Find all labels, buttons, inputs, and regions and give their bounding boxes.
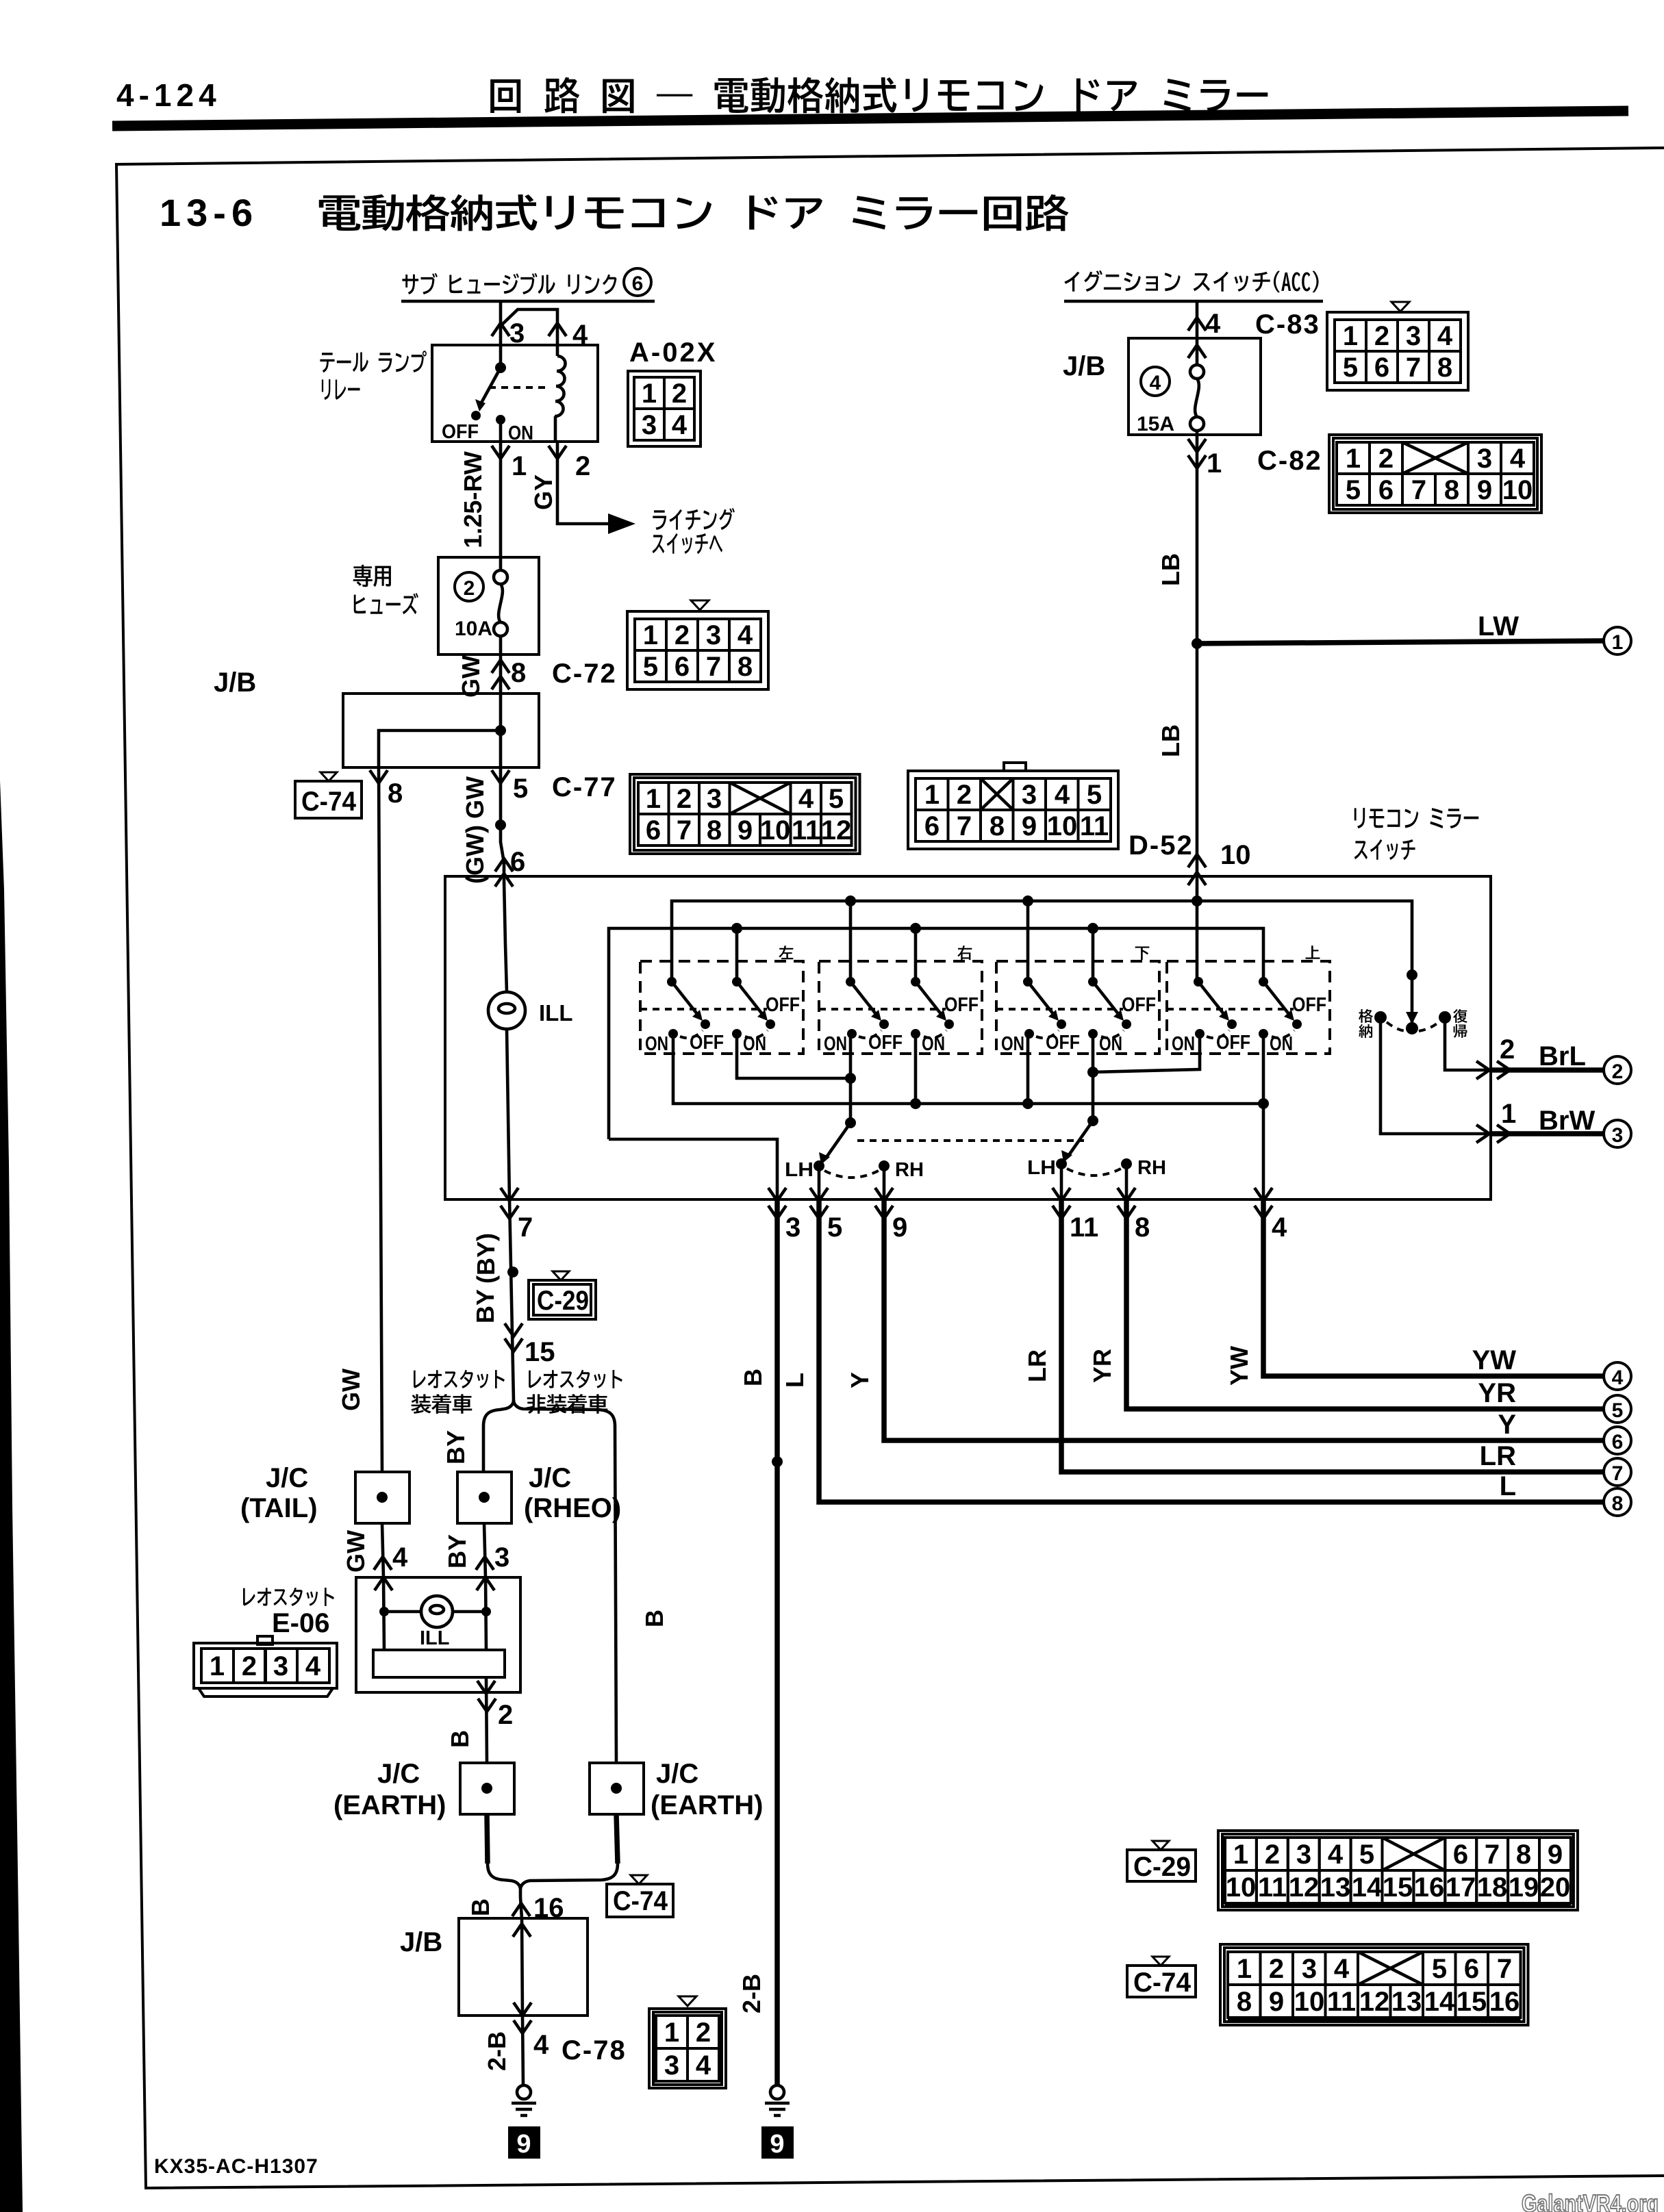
svg-text:4: 4 <box>1055 780 1070 810</box>
svg-text:5: 5 <box>643 652 658 682</box>
svg-text:5: 5 <box>827 1212 842 1243</box>
rheostat resistor element <box>373 1650 505 1677</box>
svg-text:YR: YR <box>1478 1378 1516 1408</box>
svg-text:ON: ON <box>824 1033 847 1055</box>
ground ref 9 (left) <box>508 2126 540 2159</box>
page header title <box>490 77 1268 114</box>
svg-text:4: 4 <box>696 2050 711 2081</box>
svg-text:4: 4 <box>1510 444 1526 474</box>
svg-text:19: 19 <box>1509 1872 1539 1903</box>
svg-text:2-B: 2-B <box>738 1974 766 2013</box>
connector C-29 (20 pin) <box>1218 1831 1578 1910</box>
svg-text:11: 11 <box>1258 1872 1287 1903</box>
label: remote mirror switch <box>1354 808 1478 828</box>
wire BY to rheostat pin 3 <box>484 1523 486 1577</box>
selector LH/RH no.1 <box>845 1117 856 1128</box>
svg-text:7: 7 <box>677 815 692 846</box>
wire group up-B lower to pin 4 <box>1262 1034 1265 1199</box>
svg-text:OFF: OFF <box>766 994 800 1016</box>
wire BrL from selector to terminal 2 <box>1445 1017 1491 1070</box>
svg-text:14: 14 <box>1352 1872 1383 1903</box>
svg-text:OFF: OFF <box>1292 994 1326 1016</box>
wire branch to relay pin 4 <box>501 309 557 345</box>
rail: left-B / right-A common to selector 1 <box>737 1034 850 1078</box>
wire GW fuse to J/B <box>499 654 503 694</box>
connector C-29 symbol <box>553 1271 569 1280</box>
svg-text:RH: RH <box>895 1159 924 1181</box>
svg-text:6: 6 <box>1464 1954 1479 1984</box>
selector fold/return (kakunou/fukki) <box>1374 1011 1387 1024</box>
svg-text:1: 1 <box>664 2018 679 2048</box>
rail A drop to group contacts <box>850 880 1197 982</box>
svg-text:9: 9 <box>892 1212 907 1243</box>
svg-text:6: 6 <box>924 811 940 841</box>
svg-text:3: 3 <box>1296 1840 1311 1870</box>
svg-text:LR: LR <box>1480 1441 1516 1471</box>
selector LH/RH no.2 <box>1087 1115 1098 1126</box>
svg-text:10: 10 <box>1502 475 1533 505</box>
J/B pin 8 exit <box>379 767 382 1472</box>
svg-text:4-124: 4-124 <box>116 77 221 113</box>
svg-text:15: 15 <box>1383 1872 1413 1903</box>
svg-text:3: 3 <box>494 1542 509 1573</box>
brace split <box>483 1400 615 1426</box>
wire LW to terminal 1 <box>1197 641 1603 644</box>
svg-text:9: 9 <box>1548 1840 1563 1870</box>
rheostat pin 2 exit wire B <box>486 1677 487 1763</box>
connector D-52 <box>1004 763 1026 771</box>
svg-text:3: 3 <box>1406 321 1421 351</box>
svg-text:13-6: 13-6 <box>160 191 258 234</box>
svg-text:4: 4 <box>392 1542 408 1573</box>
svg-text:ON: ON <box>1001 1033 1024 1055</box>
svg-text:OFF: OFF <box>442 421 479 443</box>
wire BY from switch pin 7 <box>509 1199 514 1401</box>
node: ignition switch (ACC) label <box>1064 270 1318 292</box>
wire B to J/B pin 16 <box>520 1898 522 1918</box>
svg-text:8: 8 <box>388 778 403 809</box>
svg-text:1.25-RW: 1.25-RW <box>459 451 487 548</box>
svg-text:LH: LH <box>1027 1157 1056 1179</box>
relay internal dashed link <box>489 386 548 389</box>
svg-text:ON: ON <box>1270 1033 1293 1055</box>
svg-text:J/B: J/B <box>1063 351 1105 381</box>
svg-text:8: 8 <box>1612 1492 1624 1515</box>
svg-text:B: B <box>739 1369 767 1386</box>
svg-text:1: 1 <box>1233 1840 1248 1870</box>
brace merge <box>488 1864 618 1898</box>
J/B pin 5 exit wire GW <box>501 767 504 880</box>
svg-text:4: 4 <box>738 620 753 650</box>
svg-text:1: 1 <box>1207 448 1222 479</box>
connector C-74 symbol <box>320 772 337 781</box>
svg-text:C-78: C-78 <box>562 2035 627 2065</box>
svg-text:10: 10 <box>1220 840 1251 870</box>
svg-text:12: 12 <box>1359 1987 1390 2017</box>
svg-text:6: 6 <box>1612 1431 1624 1453</box>
svg-text:2: 2 <box>675 620 690 650</box>
svg-text:C-29: C-29 <box>1133 1852 1191 1882</box>
svg-text:2: 2 <box>1378 444 1394 474</box>
scan artifact left edge <box>0 780 23 2212</box>
svg-text:12: 12 <box>821 815 852 846</box>
wire B pin3 down to ground <box>774 1199 780 2085</box>
svg-text:2: 2 <box>464 577 475 600</box>
svg-text:7: 7 <box>957 811 972 841</box>
svg-text:Y: Y <box>1498 1410 1516 1440</box>
svg-text:GW: GW <box>461 776 489 819</box>
rail: down-B / up-A common to selector 2 <box>1092 1034 1095 1121</box>
svg-text:2: 2 <box>1500 1034 1515 1065</box>
svg-text:J/C: J/C <box>377 1759 420 1789</box>
svg-text:6: 6 <box>1374 353 1389 383</box>
svg-text:2: 2 <box>677 784 692 814</box>
node junction to LW <box>1192 638 1202 649</box>
svg-text:C-74: C-74 <box>301 787 357 817</box>
svg-text:16: 16 <box>1489 1987 1520 2017</box>
relay coil <box>556 345 559 356</box>
svg-text:RH: RH <box>1137 1157 1166 1179</box>
wire GW to rheostat pin 4 <box>382 1523 383 1577</box>
wire B right branch (no rheostat) <box>615 1426 616 1763</box>
pin 4 <box>549 323 566 336</box>
svg-text:3: 3 <box>664 2050 679 2081</box>
svg-text:8: 8 <box>1437 353 1452 383</box>
relay switch contact <box>499 345 503 368</box>
svg-text:D-52: D-52 <box>1129 830 1194 861</box>
rail B (common inside switch) <box>609 928 1263 1139</box>
rail: ON-common to pin 4 <box>673 1034 1263 1104</box>
svg-text:E-06: E-06 <box>272 1608 330 1638</box>
svg-text:8: 8 <box>738 652 753 682</box>
svg-text:ON: ON <box>508 422 533 444</box>
svg-text:C-83: C-83 <box>1255 309 1320 340</box>
switch group 上 <box>1167 961 1330 1054</box>
svg-text:7: 7 <box>706 652 721 682</box>
svg-text:3: 3 <box>642 410 657 440</box>
svg-text:7: 7 <box>518 1212 533 1243</box>
svg-text:2: 2 <box>1612 1060 1624 1083</box>
svg-text:1: 1 <box>1501 1099 1516 1129</box>
svg-text:L: L <box>781 1373 809 1388</box>
svg-text:1: 1 <box>643 620 658 650</box>
svg-text:(EARTH): (EARTH) <box>333 1790 446 1820</box>
svg-text:1: 1 <box>210 1651 225 1681</box>
wires down to merge brace <box>487 1814 618 1864</box>
svg-text:3: 3 <box>1477 444 1492 474</box>
svg-text:OFF: OFF <box>868 1032 903 1054</box>
svg-text:4: 4 <box>305 1651 321 1681</box>
svg-text:3: 3 <box>1612 1124 1624 1147</box>
svg-text:1: 1 <box>924 780 940 810</box>
svg-text:10A: 10A <box>455 618 492 640</box>
svg-text:2: 2 <box>1374 321 1389 351</box>
svg-text:4: 4 <box>1437 321 1453 351</box>
fuse: dedicated fuse 10A (2) <box>353 565 391 587</box>
svg-text:ILL: ILL <box>539 1000 572 1026</box>
svg-text:OFF: OFF <box>690 1032 724 1054</box>
svg-text:3: 3 <box>707 784 722 814</box>
svg-text:6: 6 <box>675 652 690 682</box>
svg-text:6: 6 <box>632 272 644 295</box>
svg-text:BrL: BrL <box>1539 1041 1586 1071</box>
svg-text:7: 7 <box>1411 475 1426 505</box>
svg-text:5: 5 <box>1087 780 1102 810</box>
svg-text:8: 8 <box>1444 475 1459 505</box>
svg-text:8: 8 <box>707 815 722 846</box>
connector C-72 <box>691 600 709 610</box>
svg-text:8: 8 <box>1135 1212 1150 1243</box>
svg-text:YW: YW <box>1472 1345 1517 1375</box>
svg-text:J/C: J/C <box>656 1759 698 1789</box>
connector C-29 label (bottom) <box>1152 1841 1169 1850</box>
svg-text:15: 15 <box>525 1337 555 1367</box>
svg-text:OFF: OFF <box>944 994 979 1016</box>
svg-text:2-B: 2-B <box>483 2031 511 2071</box>
svg-text:1: 1 <box>1237 1954 1252 1984</box>
node: sub fusible link (6) label <box>402 273 616 294</box>
junction connector J/C (EARTH) right <box>590 1763 644 1814</box>
svg-text:5: 5 <box>829 784 844 814</box>
svg-text:C-82: C-82 <box>1257 446 1322 476</box>
svg-text:C-72: C-72 <box>552 659 617 689</box>
svg-text:(EARTH): (EARTH) <box>651 1790 763 1820</box>
label rheostat not equipped <box>529 1370 622 1388</box>
svg-text:5: 5 <box>1343 353 1358 383</box>
svg-text:GW: GW <box>457 655 485 698</box>
connector C-78 <box>679 1996 696 2006</box>
wire from fusible link down to relay pin 3 <box>499 301 503 345</box>
svg-text:4: 4 <box>672 410 688 440</box>
svg-text:J/C: J/C <box>529 1463 571 1493</box>
svg-text:9: 9 <box>738 815 753 846</box>
svg-text:3: 3 <box>273 1651 288 1681</box>
svg-text:5: 5 <box>1612 1399 1624 1422</box>
svg-text:9: 9 <box>1269 1987 1284 2017</box>
wire Y pin9 to terminal 6 <box>884 1199 1603 1440</box>
connector C-82 <box>1329 435 1541 513</box>
svg-text:15A: 15A <box>1137 413 1174 435</box>
ground ref 9 (right) <box>761 2126 794 2159</box>
J/B pin 1 exit wire LB <box>1196 435 1199 880</box>
svg-text:KX35-AC-H1307: KX35-AC-H1307 <box>154 2155 318 2178</box>
svg-text:6: 6 <box>510 847 525 877</box>
relay: tail lamp relay box <box>320 351 427 372</box>
svg-text:GY: GY <box>529 474 557 510</box>
svg-text:(BY): (BY) <box>472 1233 500 1284</box>
svg-text:7: 7 <box>1485 1840 1500 1870</box>
pin 3 <box>492 323 509 336</box>
svg-text:B: B <box>466 1898 494 1916</box>
svg-text:11: 11 <box>1327 1987 1356 2017</box>
svg-text:11: 11 <box>1070 1212 1098 1243</box>
svg-text:(RHEO): (RHEO) <box>524 1493 621 1523</box>
switch group 下 <box>996 961 1159 1054</box>
svg-text:11: 11 <box>1080 811 1109 841</box>
svg-text:3: 3 <box>1022 780 1037 810</box>
svg-text:2: 2 <box>672 379 687 409</box>
svg-text:LR: LR <box>1023 1349 1051 1382</box>
svg-text:LB: LB <box>1157 553 1185 586</box>
svg-text:9: 9 <box>770 2130 784 2159</box>
svg-text:1: 1 <box>642 379 657 409</box>
svg-text:BrW: BrW <box>1539 1106 1595 1136</box>
svg-text:LB: LB <box>1157 724 1185 757</box>
pin 2 wire GY to lighting switch <box>557 442 609 524</box>
svg-text:7: 7 <box>1612 1462 1624 1485</box>
svg-text:4: 4 <box>1334 1954 1350 1984</box>
svg-text:9: 9 <box>1022 811 1037 841</box>
svg-text:11: 11 <box>792 815 820 846</box>
svg-text:4: 4 <box>1205 309 1221 339</box>
svg-text:YW: YW <box>1225 1346 1253 1386</box>
svg-text:7: 7 <box>1406 353 1421 383</box>
svg-text:J/C: J/C <box>266 1463 308 1493</box>
svg-text:B: B <box>640 1610 668 1627</box>
svg-text:16: 16 <box>1414 1872 1445 1903</box>
wire LB ignition to J/B fuse 4 <box>1196 301 1199 338</box>
pin 1 wire 1.25-RW <box>499 442 503 557</box>
svg-text:15: 15 <box>1457 1987 1487 2017</box>
svg-text:3: 3 <box>785 1212 801 1243</box>
svg-text:4: 4 <box>798 784 814 814</box>
switch box pin exits <box>501 1188 518 1201</box>
svg-text:3: 3 <box>706 620 721 650</box>
svg-text:14: 14 <box>1424 1987 1455 2017</box>
svg-text:4: 4 <box>1150 372 1161 394</box>
svg-text:C-74: C-74 <box>1133 1968 1192 1998</box>
svg-text:8: 8 <box>1237 1987 1252 2017</box>
svg-text:2: 2 <box>575 451 590 481</box>
svg-text:12: 12 <box>1289 1872 1320 1903</box>
header rule <box>112 111 1628 126</box>
svg-text:5: 5 <box>513 774 528 804</box>
svg-text:LH: LH <box>785 1159 814 1181</box>
svg-text:6: 6 <box>1453 1840 1468 1870</box>
svg-text:1: 1 <box>512 451 527 481</box>
wire BY left branch to J/C RHEO <box>482 1426 486 1472</box>
rheostat unit box <box>356 1577 520 1692</box>
svg-text:9: 9 <box>1477 475 1492 505</box>
svg-text:L: L <box>1500 1471 1516 1501</box>
svg-text:7: 7 <box>1497 1954 1512 1984</box>
svg-text:LW: LW <box>1478 611 1519 641</box>
svg-text:4: 4 <box>1272 1212 1287 1243</box>
svg-text:YR: YR <box>1088 1349 1116 1383</box>
svg-text:GalantVR4.org: GalantVR4.org <box>1522 2189 1659 2212</box>
svg-text:C-29: C-29 <box>537 1286 589 1316</box>
svg-text:ILL: ILL <box>420 1627 450 1649</box>
svg-text:OFF: OFF <box>1122 994 1156 1016</box>
J/B pin 4 exit wire 2-B <box>522 2016 523 2085</box>
svg-text:2: 2 <box>242 1651 257 1681</box>
svg-text:2: 2 <box>498 1700 513 1730</box>
terminal circle 1 <box>1604 627 1631 654</box>
svg-text:2: 2 <box>1269 1954 1284 1984</box>
svg-text:BY: BY <box>443 1534 471 1568</box>
lamp ILL (rheostat) <box>383 1577 384 1650</box>
svg-text:2: 2 <box>696 2018 711 2048</box>
svg-text:13: 13 <box>1391 1987 1422 2017</box>
connector C-74 (16 pin) <box>1220 1944 1528 2025</box>
connector C-77 <box>630 774 860 854</box>
svg-text:BY: BY <box>471 1289 499 1323</box>
wire BrW from selector to terminal 3 <box>1381 1017 1491 1134</box>
svg-text:17: 17 <box>1446 1872 1476 1903</box>
svg-text:4: 4 <box>533 2030 549 2060</box>
svg-text:C-74: C-74 <box>613 1886 668 1916</box>
connector E-06 <box>257 1636 273 1644</box>
svg-text:6: 6 <box>646 815 661 846</box>
svg-text:5: 5 <box>1432 1954 1447 1984</box>
svg-text:6: 6 <box>1378 475 1394 505</box>
svg-text:20: 20 <box>1540 1872 1571 1903</box>
svg-text:18: 18 <box>1477 1872 1508 1903</box>
svg-text:J/B: J/B <box>214 668 256 698</box>
ground symbol right <box>770 2085 784 2099</box>
svg-text:8: 8 <box>989 811 1005 841</box>
wire LR pin11 to terminal 7 <box>1061 1199 1603 1472</box>
svg-text:ON: ON <box>743 1033 766 1055</box>
svg-text:1: 1 <box>1612 631 1624 654</box>
remote mirror switch box <box>445 876 1491 1199</box>
svg-text:OFF: OFF <box>1216 1032 1250 1054</box>
svg-text:GW: GW <box>342 1530 370 1573</box>
svg-text:4: 4 <box>1612 1366 1624 1389</box>
svg-text:2: 2 <box>1265 1840 1280 1870</box>
svg-text:5: 5 <box>1346 475 1361 505</box>
svg-text:8: 8 <box>511 658 526 688</box>
svg-text:B: B <box>446 1730 474 1748</box>
ground symbol left <box>517 2085 531 2099</box>
svg-text:10: 10 <box>1047 811 1078 841</box>
dashed mechanical link between selectors <box>857 1139 1084 1142</box>
svg-text:1: 1 <box>646 784 661 814</box>
wire YR pin8 to terminal 5 <box>1126 1199 1603 1409</box>
svg-text:1: 1 <box>1343 321 1358 351</box>
switch group 右 <box>819 961 982 1054</box>
connector C-74 symbol (mid) <box>631 1875 647 1884</box>
svg-text:10: 10 <box>760 815 791 846</box>
svg-text:4: 4 <box>1328 1840 1344 1870</box>
switch group 左 <box>640 961 803 1054</box>
svg-text:ON: ON <box>922 1033 945 1055</box>
connector C-74 label (bottom) <box>1152 1957 1169 1966</box>
svg-text:J/B: J/B <box>400 1927 442 1957</box>
svg-text:Y: Y <box>846 1372 874 1388</box>
svg-text:10: 10 <box>1294 1987 1325 2017</box>
svg-text:BY: BY <box>442 1430 470 1464</box>
svg-text:ON: ON <box>1172 1033 1195 1055</box>
svg-text:(TAIL): (TAIL) <box>240 1493 318 1523</box>
lamp ILL (switch illumination) <box>504 880 507 992</box>
svg-text:10: 10 <box>1226 1872 1257 1903</box>
svg-text:C-77: C-77 <box>552 772 617 802</box>
wire L pin5 to terminal 8 <box>819 1199 1603 1502</box>
svg-text:3: 3 <box>1302 1954 1317 1984</box>
wire YW pin4 to terminal 4 <box>1263 1199 1603 1376</box>
svg-text:2: 2 <box>957 780 972 810</box>
label rheostat equipped <box>414 1370 505 1388</box>
junction connector J/C (RHEO) <box>457 1472 512 1523</box>
svg-text:13: 13 <box>1320 1872 1351 1903</box>
rail B to pin 3 <box>609 1139 777 1199</box>
svg-text:8: 8 <box>1516 1840 1531 1870</box>
svg-text:5: 5 <box>1359 1840 1374 1870</box>
svg-text:GW: GW <box>337 1369 365 1411</box>
svg-text:A-02X: A-02X <box>629 338 717 368</box>
connector C-83 <box>1391 302 1409 312</box>
